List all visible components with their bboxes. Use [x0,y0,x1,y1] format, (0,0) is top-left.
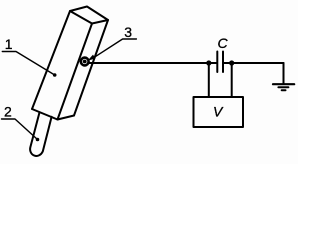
body 1: bottom front edge [32,109,58,120]
leader line for label 2 [2,119,38,140]
terminal eyelet 3 [81,58,89,66]
body 1: parallelepiped top face [70,7,108,24]
wire between right plate and dot [224,62,232,64]
wire between dot and left plate [209,62,217,64]
body 1: left long edge [32,11,70,109]
ground bar 3 [282,89,286,91]
svg-text:2: 2 [4,104,12,120]
voltmeter V box [194,97,244,127]
rod 2 (cylindrical stem) [30,112,51,156]
svg-text:3: 3 [124,24,132,40]
wire from right junction down to voltmeter [231,63,233,97]
leader line for label 3 with arrowhead [94,39,137,58]
ground bar 1 [273,83,294,85]
svg-text:C: C [218,35,229,51]
body 1: front-right long edge [58,24,93,120]
junction dot left [206,60,211,65]
wire from eyelet to capacitor [89,62,209,64]
body 1: back-right long edge [74,20,108,116]
leader line for label 1 [2,52,54,76]
junction dot right [229,60,234,65]
capacitor C left plate [216,52,218,73]
ground bar 2 [278,86,288,88]
svg-text:1: 1 [5,36,13,52]
capacitor C right plate [222,52,224,73]
ground vertical wire [283,63,285,84]
wire from capacitor to ground corner [232,62,284,64]
body 1: bottom right edge [58,116,75,120]
wire from left junction down to voltmeter [208,63,210,97]
